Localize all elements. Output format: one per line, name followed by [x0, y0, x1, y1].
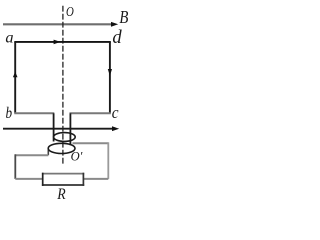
svg-text:d: d — [112, 27, 122, 48]
svg-text:b: b — [6, 105, 13, 122]
svg-text:O: O — [66, 5, 74, 20]
svg-text:a: a — [5, 29, 13, 46]
svg-text:R: R — [56, 186, 65, 203]
svg-text:c: c — [112, 103, 119, 122]
svg-text:B: B — [119, 7, 128, 27]
svg-text:O′: O′ — [71, 150, 83, 164]
